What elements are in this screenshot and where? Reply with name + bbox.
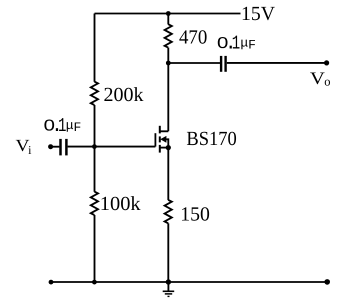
- drain stub: [160, 130, 169, 132]
- node: source-body junction: [166, 145, 171, 150]
- wire: 470 top lead: [167, 14, 169, 25]
- node: bottom rail / divider junction: [92, 280, 97, 285]
- transistor Q1 BS170: [155, 126, 168, 153]
- wire: 470 bottom lead: [167, 48, 169, 63]
- ground: [163, 282, 175, 296]
- wire: drain vertical: [167, 63, 169, 131]
- body wire to source: [166, 139, 168, 147]
- capacitor C1 0.1uF (input): [61, 139, 67, 156]
- svg-text:470: 470: [179, 27, 207, 49]
- label 0.1uF (output): [217, 33, 256, 55]
- node: top rail / 470 junction: [166, 11, 171, 16]
- gate bar: [154, 133, 156, 146]
- node: bottom rail right end: [324, 279, 330, 285]
- svg-text:F: F: [74, 120, 82, 135]
- node: bottom rail left end: [49, 280, 54, 285]
- capacitor C2 0.1uF (output): [221, 56, 226, 72]
- node: Vo output terminal: [324, 60, 329, 65]
- svg-text:1: 1: [232, 33, 240, 55]
- channel segment source side: [159, 145, 161, 153]
- source stub: [160, 147, 169, 149]
- body arrow: [160, 136, 166, 143]
- channel segment drain side: [159, 126, 161, 134]
- wire: +15V top rail: [95, 13, 241, 15]
- wire: bottom rail: [51, 281, 327, 283]
- svg-text:i: i: [28, 143, 32, 157]
- wire: input lead to capacitor: [51, 146, 60, 148]
- label 0.1uF (input): [44, 115, 82, 137]
- svg-text:V: V: [310, 68, 325, 88]
- node: Vi input terminal: [48, 144, 53, 149]
- wire: 150 bottom lead: [167, 223, 169, 282]
- resistor 150: [165, 200, 172, 223]
- label Vo: [310, 68, 331, 89]
- wire: output wire left of capacitor: [168, 62, 220, 64]
- svg-text:F: F: [248, 38, 256, 53]
- svg-text:BS170: BS170: [186, 128, 236, 150]
- node: gate / divider junction: [92, 144, 97, 149]
- svg-text:o: o: [324, 75, 330, 89]
- resistor 100k: [91, 192, 98, 215]
- wire: source lead: [167, 148, 169, 201]
- node: drain junction: [166, 61, 171, 66]
- wire: left vertical upper segment: [94, 14, 96, 82]
- wire: left vertical lower segment: [94, 215, 96, 282]
- node: bottom rail / source junction: [166, 279, 171, 284]
- wire: output wire right of capacitor: [227, 62, 327, 64]
- resistor 470: [165, 24, 172, 47]
- wire: gate wire: [68, 146, 156, 148]
- svg-text:150: 150: [180, 204, 210, 226]
- svg-text:200k: 200k: [104, 84, 144, 106]
- label Vi: [16, 136, 33, 157]
- svg-text:15V: 15V: [241, 3, 276, 25]
- wire: left vertical middle segment: [94, 105, 96, 192]
- svg-text:100k: 100k: [100, 193, 141, 215]
- resistor 200k: [91, 82, 98, 105]
- channel segment body: [159, 136, 161, 142]
